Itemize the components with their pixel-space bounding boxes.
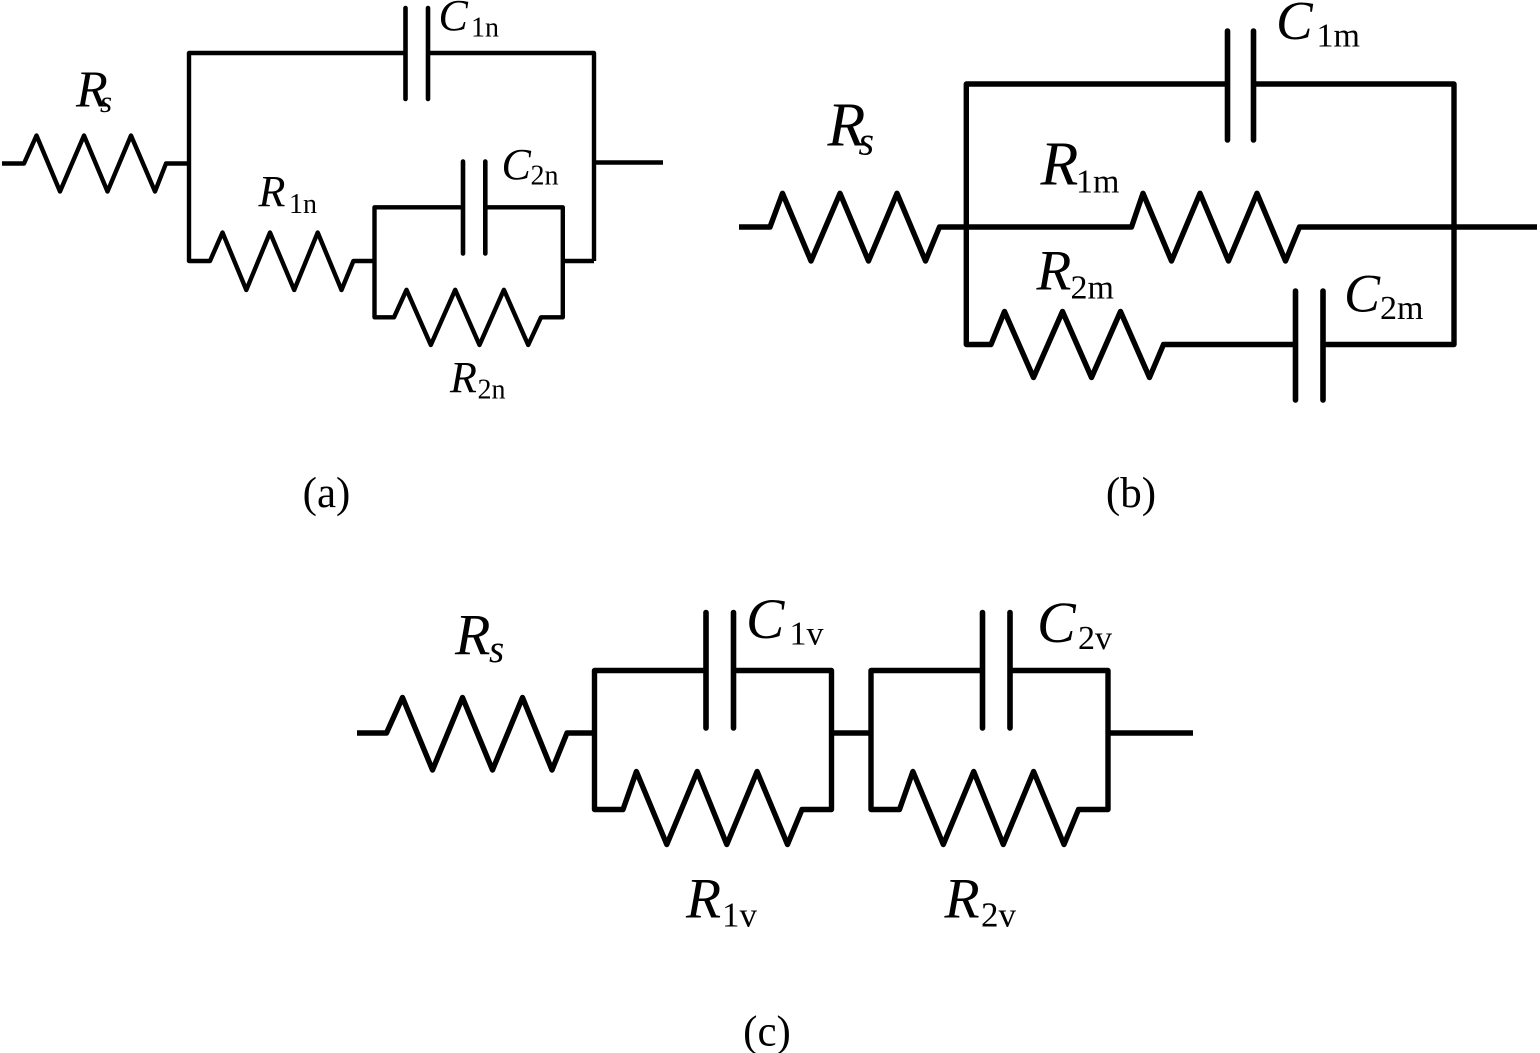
svg-text:s: s [859, 119, 875, 164]
svg-text:C: C [1276, 0, 1314, 51]
svg-text:2m: 2m [1380, 290, 1423, 327]
svg-text:(c): (c) [743, 1009, 791, 1053]
svg-text:2n: 2n [531, 161, 559, 192]
svg-text:2m: 2m [1071, 269, 1114, 306]
svg-text:1v: 1v [790, 616, 824, 653]
svg-text:C: C [1344, 264, 1381, 324]
svg-text:R: R [1036, 240, 1072, 303]
svg-text:2n: 2n [478, 375, 506, 406]
svg-text:(b): (b) [1106, 470, 1156, 517]
svg-text:R: R [944, 867, 980, 930]
svg-text:C: C [746, 588, 785, 651]
svg-text:R: R [1040, 131, 1079, 199]
svg-text:2v: 2v [1078, 620, 1112, 657]
svg-text:C: C [439, 0, 469, 40]
svg-text:R: R [454, 603, 490, 668]
svg-text:s: s [100, 84, 112, 119]
svg-text:1m: 1m [1317, 18, 1360, 55]
svg-text:(a): (a) [303, 470, 351, 517]
svg-text:1m: 1m [1076, 164, 1119, 201]
svg-text:R: R [258, 167, 286, 216]
svg-text:R: R [449, 353, 477, 402]
svg-text:C: C [502, 140, 532, 189]
svg-text:2v: 2v [981, 895, 1017, 934]
svg-text:1v: 1v [722, 895, 758, 934]
svg-text:1n: 1n [289, 189, 317, 220]
svg-text:1n: 1n [471, 13, 499, 44]
svg-text:C: C [1037, 590, 1077, 655]
svg-text:s: s [489, 628, 504, 671]
svg-text:R: R [685, 867, 721, 930]
